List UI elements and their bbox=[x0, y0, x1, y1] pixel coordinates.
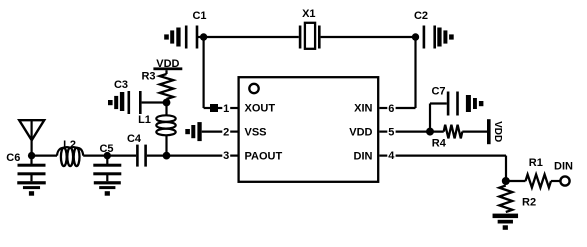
svg-text:C6: C6 bbox=[6, 152, 20, 164]
svg-text:L1: L1 bbox=[138, 114, 151, 126]
svg-text:C1: C1 bbox=[192, 10, 206, 22]
svg-text:1: 1 bbox=[223, 103, 229, 115]
svg-text:C5: C5 bbox=[99, 143, 113, 155]
svg-text:VDD: VDD bbox=[492, 121, 503, 142]
svg-text:DIN: DIN bbox=[554, 160, 573, 172]
svg-text:R3: R3 bbox=[141, 70, 155, 82]
svg-text:R1: R1 bbox=[529, 157, 543, 169]
svg-text:R2: R2 bbox=[522, 197, 536, 209]
svg-text:PAOUT: PAOUT bbox=[245, 150, 283, 162]
svg-text:3: 3 bbox=[223, 150, 229, 162]
svg-text:VSS: VSS bbox=[245, 126, 267, 138]
svg-text:C3: C3 bbox=[114, 79, 128, 91]
svg-text:2: 2 bbox=[223, 126, 229, 138]
svg-text:5: 5 bbox=[388, 126, 394, 138]
svg-text:DIN: DIN bbox=[354, 150, 373, 162]
svg-text:C4: C4 bbox=[127, 133, 142, 145]
svg-text:X1: X1 bbox=[302, 8, 315, 20]
svg-text:6: 6 bbox=[388, 103, 394, 115]
svg-text:XOUT: XOUT bbox=[245, 102, 276, 114]
svg-text:L2: L2 bbox=[63, 139, 76, 151]
svg-text:R4: R4 bbox=[432, 138, 447, 150]
svg-text:VDD: VDD bbox=[349, 126, 372, 138]
svg-text:XIN: XIN bbox=[354, 102, 372, 114]
svg-text:C7: C7 bbox=[431, 86, 445, 98]
svg-text:4: 4 bbox=[388, 150, 395, 162]
svg-text:C2: C2 bbox=[414, 10, 428, 22]
